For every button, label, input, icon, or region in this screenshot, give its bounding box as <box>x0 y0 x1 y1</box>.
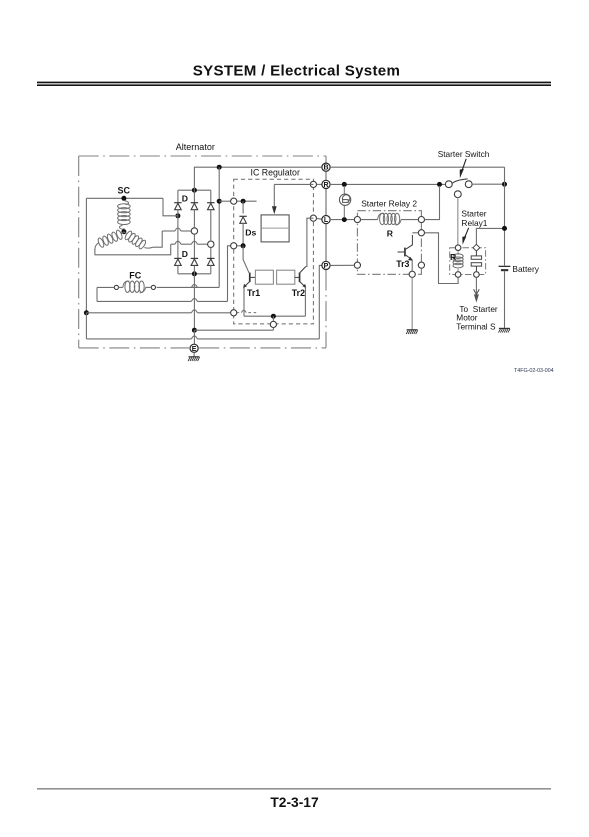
svg-text:Battery: Battery <box>512 264 539 274</box>
svg-text:IC Regulator: IC Regulator <box>251 168 300 178</box>
svg-text:R: R <box>323 182 328 189</box>
svg-text:E: E <box>192 346 197 353</box>
svg-text:R: R <box>450 252 457 262</box>
svg-text:D: D <box>182 249 188 259</box>
svg-text:Relay1: Relay1 <box>461 218 487 228</box>
svg-text:T2-3-17: T2-3-17 <box>270 795 319 810</box>
svg-text:Terminal S: Terminal S <box>456 321 496 331</box>
svg-text:FC: FC <box>129 271 141 281</box>
svg-text:P: P <box>324 263 329 270</box>
svg-text:Tr2: Tr2 <box>292 288 305 298</box>
svg-text:B: B <box>323 165 328 172</box>
svg-text:Starter Switch: Starter Switch <box>438 149 490 159</box>
svg-text:D: D <box>182 194 188 204</box>
svg-text:Alternator: Alternator <box>176 142 215 152</box>
svg-text:SC: SC <box>118 186 131 196</box>
svg-text:Tr1: Tr1 <box>247 288 260 298</box>
svg-text:R: R <box>387 229 394 239</box>
svg-text:Starter Relay 2: Starter Relay 2 <box>361 199 417 209</box>
svg-text:Ds: Ds <box>245 227 256 237</box>
svg-text:Starter: Starter <box>461 208 486 218</box>
svg-text:SYSTEM / Electrical System: SYSTEM / Electrical System <box>193 63 400 80</box>
svg-text:Tr3: Tr3 <box>396 259 409 269</box>
svg-text:T4FG-02-03-004: T4FG-02-03-004 <box>514 368 554 374</box>
svg-text:L: L <box>324 217 329 224</box>
